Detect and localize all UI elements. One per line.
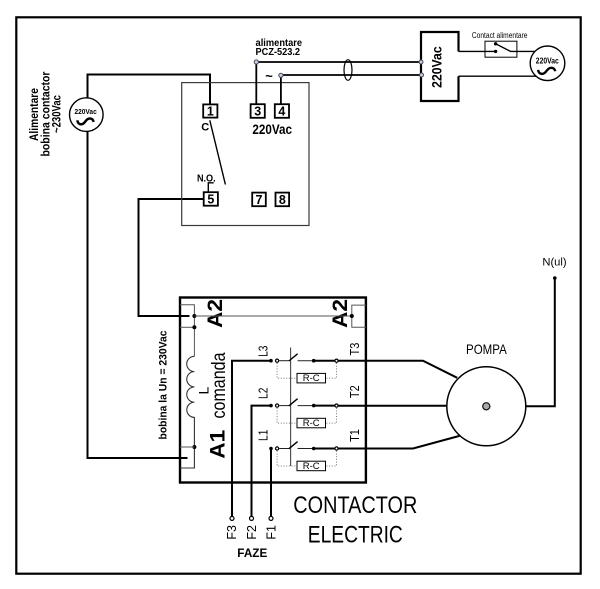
svg-text:7: 7 <box>256 193 263 207</box>
svg-text:A2: A2 <box>203 299 227 328</box>
svg-text:bobina la Un = 230Vac: bobina la Un = 230Vac <box>157 331 169 440</box>
terminal 5 <box>204 192 218 206</box>
wire: phase F3 to L3 <box>232 361 271 517</box>
svg-text:A2: A2 <box>328 299 352 328</box>
svg-text:ELECTRIC: ELECTRIC <box>308 521 403 548</box>
svg-text:POMPA: POMPA <box>466 341 507 357</box>
pole L2-T2 <box>269 399 338 408</box>
wire: plug to switch <box>459 50 496 52</box>
wire: T1 to pump <box>339 436 460 449</box>
N.O. fixed contact stub <box>208 183 213 192</box>
svg-text:220Vac: 220Vac <box>536 57 559 66</box>
wire A2-A2 link <box>194 315 351 317</box>
wire: phase F2 to L2 <box>252 406 272 517</box>
wire: phase F1 to L1 <box>270 449 272 517</box>
svg-text:220Vac: 220Vac <box>428 46 444 88</box>
snubber R-C (middle) <box>277 408 336 429</box>
node plug pin top <box>419 60 423 64</box>
svg-text:F2: F2 <box>245 525 259 540</box>
svg-text:4: 4 <box>278 105 285 119</box>
node F2 end <box>250 516 254 520</box>
cable marker ellipse <box>344 60 352 81</box>
timer U1 box PCZ-523.2 <box>182 83 309 226</box>
svg-text:T2: T2 <box>348 385 362 398</box>
node N(ul) <box>553 276 557 280</box>
svg-text:C: C <box>201 122 209 134</box>
coil L1 (contactor coil) <box>180 356 196 468</box>
AC source V1 (left 220Vac) <box>70 98 104 132</box>
svg-text:~: ~ <box>265 69 273 84</box>
label Alimentare bobina contactor ~230Vac <box>27 71 63 156</box>
motor M1 pump <box>447 367 526 446</box>
switch arm (timer contact) <box>210 120 226 184</box>
svg-text:N(ul): N(ul) <box>542 257 566 269</box>
node F3 end <box>230 516 234 520</box>
pole L3-T3 <box>269 354 338 363</box>
svg-text:PCZ-523.2: PCZ-523.2 <box>256 47 301 58</box>
svg-text:A1: A1 <box>205 430 229 459</box>
label CONTACTOR ELECTRIC <box>293 492 417 548</box>
wire: timer pin 5 to contactor A2 <box>139 199 204 316</box>
svg-text:comanda: comanda <box>209 352 230 418</box>
wire: T2 to pump <box>339 405 448 407</box>
coil terminal A2 (left) <box>180 305 196 357</box>
svg-text:T3: T3 <box>348 343 362 356</box>
svg-text:220Vac: 220Vac <box>252 121 292 137</box>
svg-text:T1: T1 <box>348 429 362 442</box>
svg-text:F3: F3 <box>225 525 239 540</box>
label alimentare PCZ-523.2 <box>256 38 303 58</box>
terminal 4 <box>275 104 289 119</box>
contactor K1 box <box>180 298 366 483</box>
snubber R-C (bottom) <box>277 451 336 472</box>
svg-text:5: 5 <box>207 193 214 207</box>
svg-text:220Vac: 220Vac <box>74 107 96 116</box>
svg-text:1: 1 <box>207 105 214 119</box>
svg-text:R-C: R-C <box>303 373 320 384</box>
wire: switch to AC source right <box>510 50 535 52</box>
wire: plug bottom to AC source right <box>459 75 537 77</box>
AC source V2 (right 220Vac) <box>530 46 565 81</box>
snubber R-C (top) <box>277 363 336 384</box>
wire: pin3 to 220Vac plug (top) <box>256 62 421 104</box>
wire: source bottom to contactor A1 <box>88 131 188 458</box>
svg-text:L1: L1 <box>257 430 271 441</box>
connector P1 220Vac plug <box>421 32 459 101</box>
label L comanda <box>195 352 230 418</box>
svg-text:Contact alimentare: Contact alimentare <box>472 31 528 40</box>
terminal 1 <box>203 104 217 118</box>
svg-text:R-C: R-C <box>303 461 320 472</box>
pole L1-T1 <box>269 442 338 451</box>
wire: source top to timer pin 1 <box>88 75 211 105</box>
terminal 8 <box>276 193 290 207</box>
linkage line <box>290 348 292 467</box>
wire: pump to N(ul) <box>526 278 555 406</box>
terminal 3 <box>251 104 265 119</box>
node plug pin bottom <box>420 73 424 77</box>
svg-text:CONTACTOR: CONTACTOR <box>293 492 417 519</box>
svg-text:3: 3 <box>254 105 261 119</box>
terminal 7 <box>252 193 266 207</box>
switch S1 Contact alimentare <box>472 31 528 57</box>
svg-text:8: 8 <box>279 193 286 207</box>
svg-text:R-C: R-C <box>303 418 320 429</box>
svg-text:L3: L3 <box>257 346 271 357</box>
wire: T3 to pump <box>339 361 458 378</box>
svg-text:FAZE: FAZE <box>237 546 267 560</box>
node pin3 <box>254 60 258 64</box>
svg-text:~230Vac: ~230Vac <box>50 95 64 133</box>
node F1 end <box>269 516 273 520</box>
svg-text:F1: F1 <box>265 525 279 540</box>
wire: pin4 to 220Vac plug (bottom) <box>281 75 421 104</box>
svg-text:L2: L2 <box>257 388 271 399</box>
coil terminal A2 (right) <box>350 305 366 327</box>
node pin4 <box>279 73 283 77</box>
